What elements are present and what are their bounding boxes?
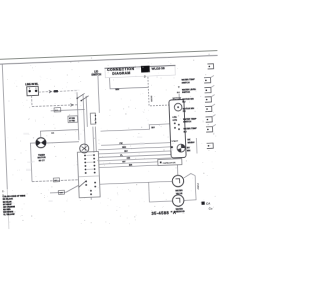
motor terminal square: [171, 146, 173, 148]
line cord neutral drop: [31, 96, 33, 107]
svg-text:BU: BU: [184, 131, 188, 133]
wire GY run: [51, 109, 85, 110]
lower switch diagonal: [79, 180, 87, 187]
part number black box: [141, 66, 150, 73]
svg-text:Cu: Cu: [209, 206, 213, 210]
motor terminals: [174, 122, 180, 130]
svg-text:BU: BU: [151, 127, 155, 129]
svg-text:BK: BK: [51, 133, 55, 135]
connector list entry 4: [183, 108, 195, 113]
lower diagonal wire: [66, 185, 79, 192]
svg-text:SWITCH: SWITCH: [182, 92, 191, 94]
wire WH label blob: [54, 90, 58, 92]
svg-text:BU: BU: [124, 151, 128, 153]
svg-text:6 PA: 6 PA: [172, 116, 177, 119]
sheet top border upper line: [0, 51, 217, 60]
svg-text:SWITCH: SWITCH: [91, 73, 101, 76]
svg-text:MOTOR WH: MOTOR WH: [183, 108, 195, 110]
motor start winding circle: [177, 144, 185, 152]
lower terminals: [85, 180, 96, 195]
lid switch drop wire: [110, 76, 149, 88]
motor protector circle: [174, 103, 182, 111]
svg-text:8 PB: 8 PB: [173, 120, 178, 122]
svg-text:BK: BK: [177, 92, 181, 94]
wire WH arrow: [49, 90, 52, 93]
connector list entry 6: [183, 127, 197, 133]
capacitor C1 label box: [158, 159, 182, 166]
lid switch vertical wire: [98, 76, 99, 113]
water valve solenoid V1: [172, 175, 184, 187]
svg-text:SWITCH: SWITCH: [182, 82, 191, 84]
splice label box GY/BU: [68, 116, 78, 123]
terminal link ticks: [87, 155, 94, 169]
motor winding labels: [172, 116, 177, 122]
bus wire V5: [95, 127, 96, 152]
bus wire V1: [77, 92, 79, 140]
box bottom stub: [90, 197, 92, 199]
drain pump solenoid V2: [172, 195, 184, 207]
svg-text:35-4588 “A”: 35-4588 “A”: [151, 210, 178, 216]
connector list entry 1: [181, 78, 195, 84]
wire row OR: [99, 158, 171, 161]
svg-text:BU: BU: [182, 101, 186, 103]
wire BK label box: [53, 178, 59, 182]
bus wire V6 dashed: [148, 76, 169, 106]
timer motor label: [37, 154, 46, 162]
wire row BU2: [98, 151, 170, 154]
wire branch to pump: [149, 181, 172, 202]
junction dots switch: [76, 97, 78, 99]
wire to water valve: [100, 181, 172, 184]
line terminal L1: [28, 90, 30, 92]
svg-text:GY BU: GY BU: [69, 118, 76, 120]
timer motor M1: [36, 138, 46, 148]
title block box: [105, 65, 175, 77]
switch contact S1: [77, 93, 85, 98]
wire BK long run: [32, 180, 78, 182]
svg-text:OR: OR: [127, 158, 131, 160]
control box: [77, 151, 100, 197]
svg-text:BK/WH: BK/WH: [150, 96, 152, 103]
svg-text:2: 2: [144, 74, 146, 78]
top corner connector: [207, 64, 213, 69]
timer motor top wire: [40, 130, 78, 138]
svg-text:WH: WH: [59, 192, 63, 194]
svg-text:GY/BU: GY/BU: [196, 183, 198, 190]
svg-text:GY: GY: [122, 161, 126, 163]
svg-text:PK: PK: [120, 143, 124, 145]
water level switch P1: [80, 144, 89, 153]
pump right wire: [184, 199, 196, 201]
line terminal L2: [35, 90, 37, 92]
svg-text:CAPACITOR: CAPACITOR: [163, 161, 176, 165]
connector list entry 8: [187, 147, 191, 152]
line cord terminal box: [27, 86, 39, 95]
wire row BR: [99, 165, 158, 167]
terminal tick: [30, 87, 36, 89]
bus wire V4: [93, 127, 94, 153]
control terminals column B: [93, 154, 96, 173]
drain pump label: [174, 208, 186, 214]
wire color legend rows: [3, 198, 16, 217]
title text CONNECTION DIAGRAM: [107, 67, 135, 76]
svg-text:YL YELLOW: YL YELLOW: [3, 214, 14, 216]
svg-text:CY RD: CY RD: [69, 121, 76, 123]
wire WH lower run: [50, 191, 66, 194]
svg-text:WH: WH: [115, 89, 119, 91]
svg-text:WATER TEMP: WATER TEMP: [183, 127, 197, 131]
wire row YL: [99, 155, 171, 158]
lower glyph: [207, 143, 214, 148]
svg-text:SWITCH: SWITCH: [183, 121, 192, 123]
svg-text:WH: WH: [122, 147, 126, 149]
bus wire V2: [83, 95, 85, 151]
svg-text:START: START: [171, 140, 179, 143]
svg-text:MOTOR WH: MOTOR WH: [182, 98, 194, 100]
bus wire V3: [86, 96, 87, 127]
lid switch label: [91, 70, 101, 77]
right link wire: [194, 176, 197, 201]
svg-text:PK: PK: [183, 111, 186, 113]
svg-text:WH/BU: WH/BU: [188, 142, 195, 144]
timer motor wire right: [46, 142, 79, 143]
sheet top border lower line: [0, 55, 218, 64]
wire BU arrow: [70, 104, 73, 107]
connector block: [90, 113, 95, 124]
wire row PK: [101, 143, 170, 146]
switch contact S2: [81, 96, 89, 101]
svg-text:WH: WH: [187, 150, 191, 152]
svg-text:DIAGRAM: DIAGRAM: [112, 71, 130, 76]
scan noise specks: [1, 53, 216, 224]
valve stub diagonal: [184, 173, 196, 178]
connector list entry 3: [182, 98, 194, 103]
wire WH from line cord: [38, 91, 76, 93]
connector list entry 7: [187, 139, 195, 144]
svg-text:WL/10 38: WL/10 38: [151, 66, 164, 71]
timer motor wire left: [30, 143, 37, 182]
connector list entry 2: [182, 88, 197, 94]
motor U1 outline: [169, 99, 186, 158]
corner stamp CA: [201, 202, 204, 205]
bracket line: [195, 138, 198, 153]
margin specks: [2, 190, 4, 195]
wire row WH2: [98, 147, 170, 150]
water valve label: [175, 189, 183, 195]
svg-text:LINE IN WL: LINE IN WL: [25, 83, 39, 87]
svg-text:BR: BR: [129, 165, 133, 167]
sheet left border: [2, 64, 7, 189]
control terminals column A: [84, 155, 87, 174]
svg-text:COLOR CODE OF WIRE: COLOR CODE OF WIRE: [3, 195, 26, 198]
wire WH lower label box: [58, 190, 64, 194]
wire BU jog to motor: [100, 124, 170, 131]
svg-text:60 CY: 60 CY: [39, 160, 46, 162]
wire GY label box: [54, 108, 61, 112]
wire BU neutral run: [32, 105, 77, 107]
wire row GY2: [99, 162, 158, 164]
motor top lead: [178, 94, 180, 100]
svg-text:CA: CA: [206, 201, 211, 205]
capacitor lead: [176, 165, 178, 175]
connector list entry 5: [183, 117, 197, 123]
